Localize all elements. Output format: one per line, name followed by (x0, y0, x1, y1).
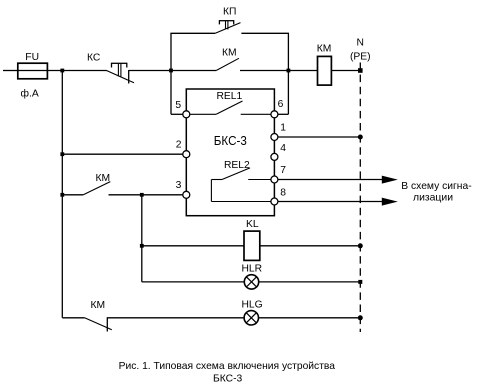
svg-text:В схему сигна-: В схему сигна- (401, 181, 471, 192)
label В схему сигна- (401, 181, 471, 192)
wire: right riser of КП branch (287, 33, 289, 114)
terminal 3 (183, 191, 190, 198)
wire: КП branch top left (170, 32, 215, 34)
label REL2 (224, 160, 250, 171)
node: junction right riser / main wire (287, 69, 291, 73)
net N (PE) dashed neutral line (359, 63, 361, 333)
label FU (25, 52, 39, 63)
svg-text:КП: КП (223, 7, 236, 18)
terminal 8 (271, 198, 278, 205)
label БКС-3 (214, 133, 247, 148)
node: junction left bus row 2 (60, 152, 64, 156)
contact КМ (NO, main wire) (216, 58, 239, 70)
wire: left riser of КП branch (170, 33, 172, 114)
wire: row 3 left segment (62, 194, 83, 196)
wire: КП branch top right (241, 32, 289, 34)
wire: mains input to fuse (3, 70, 18, 72)
pin number 1 (280, 123, 286, 134)
pin number 7 (280, 165, 286, 176)
svg-text:КМ: КМ (222, 47, 237, 58)
svg-text:3: 3 (176, 180, 182, 191)
wire: HLR row left segment (142, 281, 244, 283)
node: junction terminal1 wire / N line (358, 135, 363, 140)
svg-text:КМ: КМ (96, 173, 111, 184)
wire: terminal 7 to signal arrow (278, 179, 384, 181)
svg-text:Рис. 1. Типовая схема включени: Рис. 1. Типовая схема включения устройст… (119, 361, 336, 372)
fuse FU (18, 63, 48, 79)
pushbutton КС (NC stop button) (107, 63, 135, 84)
wire: fuse to KC button (47, 70, 106, 72)
wire: HLG row from left bus (62, 317, 84, 319)
label КП (223, 7, 236, 18)
wire: terminal 1 to N line (278, 136, 360, 138)
label лизации (413, 193, 453, 204)
terminal 5 (183, 111, 190, 118)
svg-text:БКС-3: БКС-3 (213, 373, 243, 384)
caption line 2 (213, 373, 243, 384)
wire: left vertical bus (61, 71, 63, 318)
wire: second vertical (row3 to HLR row) (141, 195, 143, 282)
node: junction row 3 / second vertical (140, 193, 144, 197)
label HLG (242, 299, 263, 310)
label REL1 (217, 91, 243, 102)
contact REL1 (inside БКС-3) (190, 101, 271, 114)
label КМ (coil) (317, 44, 332, 55)
pin number 4 (280, 143, 286, 154)
svg-text:ф.А: ф.А (21, 88, 39, 100)
node: junction left bus row 3 (60, 193, 64, 197)
svg-text:лизации: лизации (413, 193, 453, 204)
wire: KL row left segment (142, 245, 244, 247)
pin number 3 (176, 180, 182, 191)
wire: coil to N line (331, 70, 360, 72)
svg-text:REL2: REL2 (224, 160, 250, 171)
wire: KC to KM contact (129, 70, 217, 72)
node: junction left riser / main wire (169, 69, 173, 73)
svg-text:КМ: КМ (317, 44, 332, 55)
wire: HLR row right segment to N (259, 281, 361, 283)
svg-text:KL: KL (246, 219, 259, 230)
svg-text:N: N (357, 38, 364, 49)
node: junction HLG row / N line (358, 315, 363, 320)
wire: row 2 from left bus to terminal 2 (62, 153, 183, 155)
arrow: to signalling circuit (upper) (382, 176, 398, 184)
label КС (87, 53, 101, 64)
terminal 7 (271, 176, 278, 183)
wire: terminal 8 to signal arrow (278, 201, 384, 203)
svg-text:(PE): (PE) (350, 52, 371, 63)
label КМ (HLG row contact) (91, 300, 106, 311)
svg-text:7: 7 (280, 165, 286, 176)
label (PE) (350, 52, 371, 63)
terminal 4 (271, 153, 278, 160)
svg-text:HLG: HLG (242, 299, 263, 310)
node: junction KL row / second vertical (140, 244, 144, 248)
svg-text:FU: FU (25, 52, 39, 63)
label ф.А (21, 88, 39, 100)
coil КМ (contactor coil) (318, 56, 332, 85)
svg-text:6: 6 (278, 99, 284, 110)
label KL (246, 219, 259, 230)
label HLR (242, 263, 263, 274)
caption line 1 (119, 361, 336, 372)
label N (357, 38, 364, 49)
pin number 5 (175, 100, 181, 111)
terminal 2 (183, 151, 190, 158)
pushbutton КП (NO start button) (215, 20, 240, 33)
node: N line at main wire (358, 68, 363, 73)
wire: HLG row right segment to N (259, 317, 361, 319)
pin number 6 (278, 99, 284, 110)
wire: terminal 6 to right riser (278, 113, 289, 115)
arrow: to signalling circuit (lower) (382, 198, 398, 206)
label КМ (main contact) (222, 47, 237, 58)
wire: left riser to terminal 5 (171, 113, 183, 115)
svg-text:HLR: HLR (242, 263, 263, 274)
svg-text:КС: КС (87, 53, 101, 64)
svg-text:REL1: REL1 (217, 91, 243, 102)
svg-text:8: 8 (280, 188, 286, 199)
lamp HLG (244, 311, 258, 325)
svg-text:5: 5 (175, 100, 181, 111)
terminal 6 (271, 111, 278, 118)
contact REL2 (inside БКС-3) (211, 168, 271, 202)
svg-text:КМ: КМ (91, 300, 106, 311)
label КМ (row 3 contact) (96, 173, 111, 184)
node: junction at left bus (60, 69, 64, 73)
svg-text:2: 2 (176, 140, 182, 151)
pin number 8 (280, 188, 286, 199)
contact КМ (NC, HLG row) (85, 317, 112, 331)
coil KL (relay coil) (244, 231, 260, 260)
svg-text:1: 1 (280, 123, 286, 134)
node: junction KL row / N line (358, 243, 363, 248)
pin number 2 (176, 140, 182, 151)
node: junction HLR row / N line (358, 280, 362, 284)
svg-text:БКС-3: БКС-3 (214, 133, 247, 148)
contact КМ (NO, row 3) (83, 182, 110, 195)
svg-text:4: 4 (280, 143, 286, 154)
device box БКС-3 (186, 89, 274, 216)
wire: row 3 right segment to terminal 3 (109, 194, 183, 196)
terminal 1 (271, 134, 278, 141)
lamp HLR (244, 275, 258, 289)
wire: HLG row middle segment (107, 317, 244, 319)
wire: KL row right segment to N (260, 245, 361, 247)
wire: KM contact to right riser (240, 70, 318, 72)
